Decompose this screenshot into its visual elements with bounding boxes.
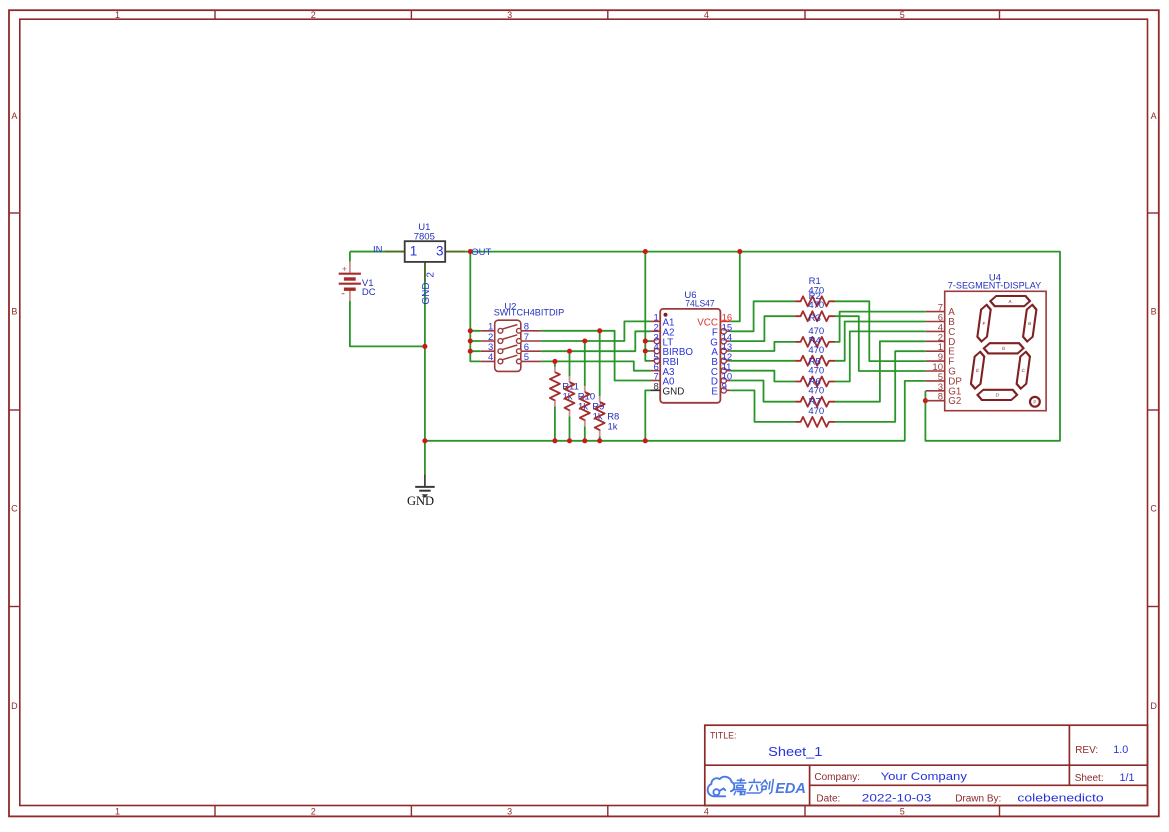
title block [705,725,1148,805]
wire R8 riser [599,331,601,441]
svg-text:1.0: 1.0 [1113,744,1128,756]
svg-text:9: 9 [722,382,727,393]
resistor R10 1k [569,376,571,382]
U6 pin1 marker dot [664,313,668,317]
svg-text:Date:: Date: [816,794,840,805]
svg-text:colebenedicto: colebenedicto [1017,793,1103,805]
junction R8 bottom [597,438,602,443]
U6 pin 3 (LT) [650,332,673,348]
svg-text:2: 2 [311,807,316,817]
wire U6 GND pin to rail [645,390,650,440]
svg-text:4: 4 [488,352,493,363]
U6 pin 6 (A3) [650,362,675,378]
junction R10 bottom [567,438,572,443]
junction R11 bottom [552,438,557,443]
junction GND rail left [422,438,427,443]
junction +5V / U6 VCC [737,249,742,254]
svg-text:470: 470 [808,366,824,377]
resistor R6 470 [795,397,835,407]
svg-text:G2: G2 [948,396,961,407]
svg-text:8: 8 [938,392,943,403]
wire R4 to display B [835,322,926,361]
svg-text:C: C [11,503,18,513]
svg-text:3: 3 [436,243,444,258]
wire R10 riser [569,351,571,441]
wire R11 riser [554,361,556,440]
U4 pin 10 (G) [926,362,956,378]
svg-text:1: 1 [410,243,418,258]
svg-text:IN: IN [373,244,383,255]
svg-text:D: D [11,701,18,711]
U6 pin 11 (C) [711,362,732,378]
svg-text:5: 5 [524,352,529,363]
wire R1 to display F [835,301,926,361]
resistor R8 1k [599,396,601,402]
junction R11 top [552,359,557,364]
U4 pin 4 (C) [926,322,956,338]
junction battery bottom [422,344,427,349]
junction U6 GND rail [643,438,648,443]
U6 pin 1 (A1) [650,313,674,329]
junction R8 top [597,328,602,333]
display U4 7-SEGMENT-DISPLAY body [945,291,1046,410]
JLCEDA logo text [733,779,774,795]
resistor R4 470 [795,356,835,366]
svg-text:A: A [11,111,17,121]
U6 pin 2 (A2) [650,322,674,338]
U4 pin 6 (B) [926,313,956,329]
wire switch pin8 row to U6 A0 [541,331,650,381]
JLCEDA logo cloud icon [708,777,735,797]
svg-text:4: 4 [704,10,709,20]
wire U6 G to R2 [730,316,795,341]
U4 pin 7 (A) [926,303,956,319]
svg-text:A: A [1151,111,1157,121]
svg-text:3: 3 [507,10,512,20]
resistor R11 1k [554,367,556,373]
svg-text:470: 470 [808,345,824,356]
wire battery bottom to GND vertical [350,301,425,347]
wire U6 E to R7 [730,390,795,422]
wire switch pin7 row to U6 A1 [541,321,650,341]
wire VCC tie to LT/BIRBO/RBI [645,252,650,361]
svg-text:GND: GND [421,282,432,304]
IC U6 74LS47 body [660,309,720,403]
svg-text:1/1: 1/1 [1120,772,1135,784]
wire switch pin5 row to U6 A3 [541,361,650,370]
resistor R1 470 [795,296,835,306]
svg-text:2: 2 [311,10,316,20]
wire R7 to display E [835,351,926,422]
svg-text:GND: GND [663,387,685,398]
svg-text:4: 4 [704,807,709,817]
U6 pin 13 (A) [711,342,732,358]
wire GND rail with DP branch [425,381,926,441]
svg-text:Sheet_1: Sheet_1 [768,744,822,759]
svg-text:7805: 7805 [414,232,435,243]
U4 pin 3 (G1) [926,382,962,398]
svg-text:B: B [1151,307,1157,317]
wire switch pin6 row to U6 A2 [541,331,650,351]
svg-text:SWITCH4BITDIP: SWITCH4BITDIP [494,307,565,317]
junction switch row2 tap [468,338,473,343]
U6 pin 16 (VCC) [697,313,732,329]
resistor R2 470 [795,311,835,321]
svg-text:DC: DC [362,287,376,298]
junction R10 top [567,349,572,354]
wire U6 B to R4 [730,360,795,362]
svg-text:EDA: EDA [775,780,806,797]
U6 pin 4 (BIRBO) [650,342,693,358]
wire U6 C to R5 [730,371,795,382]
wire R3 to display A [835,312,926,342]
svg-text:R3: R3 [809,313,821,324]
svg-text:REV:: REV: [1075,745,1098,756]
svg-text:B: B [11,307,17,317]
wire U6 A to R3 [730,342,795,351]
U6 pin 8 (GND) [650,382,684,398]
U4 pin 9 (F) [926,352,955,368]
svg-text:470: 470 [808,300,824,311]
resistor R7 470 [795,417,835,427]
svg-text:5: 5 [900,10,905,20]
svg-text:P: P [1033,400,1036,405]
wire U6 F to R1 [730,301,795,331]
svg-text:Your Company: Your Company [881,771,968,783]
junction LT tie [643,339,648,344]
wire R5 to display C [835,331,926,381]
U4 pin 8 (G2) [926,392,962,408]
wire R6 to display D [835,341,926,401]
wire U6 D to R6 [730,381,795,402]
U6 pin 15 (F) [712,322,732,338]
svg-text:8: 8 [654,382,659,393]
ground symbol [415,475,435,498]
U4 pin 1 (E) [926,342,956,358]
svg-text:GND: GND [407,494,434,508]
svg-text:470: 470 [808,406,824,417]
U6 pin 9 (E) [711,382,730,398]
svg-text:Drawn By:: Drawn By: [955,794,1001,805]
svg-text:7-SEGMENT-DISPLAY: 7-SEGMENT-DISPLAY [948,281,1041,291]
svg-text:2022-10-03: 2022-10-03 [862,793,932,805]
junction BIRBO tie [643,348,648,353]
svg-text:1k: 1k [608,421,618,432]
junction R9 bottom [582,438,587,443]
wire R2 to display G [835,316,926,371]
svg-text:OUT: OUT [471,247,491,258]
wire R9 riser [584,341,586,441]
wire U6 VCC pin to +5V rail [730,252,740,322]
svg-text:Company:: Company: [814,772,860,783]
battery V1 DC source [339,262,361,301]
wire +5V drop to switch inputs [470,252,481,362]
resistor R5 470 [795,377,835,387]
junction G1-G2 node [923,398,928,403]
svg-text:TITLE:: TITLE: [710,731,736,741]
junction OUT node [468,249,473,254]
7-seg DP [1030,397,1040,407]
U6 pin 12 (B) [711,352,732,368]
svg-text:470: 470 [808,386,824,397]
svg-text:2: 2 [426,272,437,278]
U6 pin 7 (A0) [650,372,675,388]
svg-text:Sheet:: Sheet: [1075,773,1104,784]
svg-text:+: + [342,263,347,273]
svg-text:1: 1 [115,10,120,20]
regulator U1 7805 [385,241,466,282]
svg-text:5: 5 [900,807,905,817]
wire battery top to U1 IN [350,252,405,262]
U4 pin 5 (DP) [926,372,963,388]
U4 pin 2 (D) [926,332,956,348]
wire U1 GND pin down to ground symbol [424,262,426,475]
7-seg digit glyph [969,296,1039,400]
junction switch row3 tap [468,349,473,354]
junction +5V / LT-BIRBO tie [643,249,648,254]
svg-text:74LS47: 74LS47 [685,298,715,309]
svg-text:D: D [1150,701,1157,711]
resistor R9 1k [584,386,586,392]
svg-text:E: E [711,387,718,398]
svg-text:3: 3 [507,807,512,817]
U6 pin 14 (G) [710,332,732,348]
switch U2 SWITCH4BITDIP [481,320,541,371]
junction switch row1 tap [468,328,473,333]
svg-text:C: C [1150,503,1157,513]
wire +5V top rail from V1/U1 to right drop and G1/G2 riser [350,252,1060,441]
U6 pin 5 (RBI) [650,352,678,368]
svg-text:1: 1 [115,807,120,817]
junction R9 top [582,338,587,343]
resistor R3 470 [795,337,835,347]
U6 pin 10 (D) [711,372,732,388]
